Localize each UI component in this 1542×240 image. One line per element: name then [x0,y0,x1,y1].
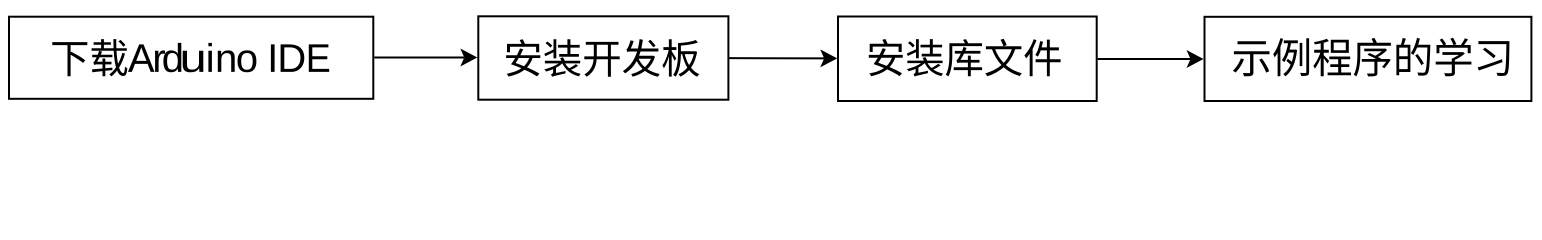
text box2 安装开发板 [506,39,699,77]
process box 2: 安装开发板 [478,16,728,99]
arrow 1: box1 to box2 [374,49,477,67]
arrow 2: box2 to box3 [729,49,837,67]
text box1 Latin Arduino IDE [128,43,329,72]
process box 4: 示例程序的学习 [1205,17,1532,101]
process box 1: 下载Arduino IDE [9,17,373,99]
process box 3: 安装库文件 [838,17,1097,102]
arrow 3: box3 to box4 [1098,50,1204,68]
text box3 安装库文件 [869,39,1061,77]
text box4 示例程序的学习 [1233,38,1510,77]
text box1 CJK 下载 [52,39,127,76]
